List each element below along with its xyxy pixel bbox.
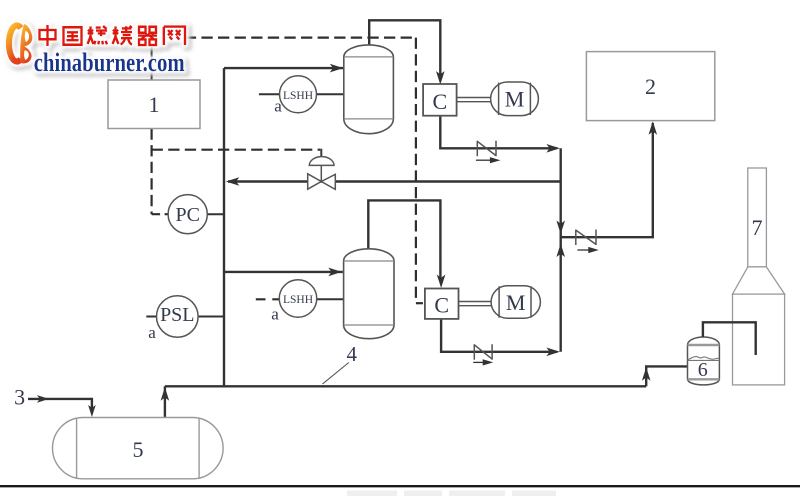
wire: dashed signal from box 1 top up to top run — [151, 38, 153, 80]
wire: step up to flare KO drum 6 with up arrow — [646, 366, 687, 386]
instrument PC circle — [168, 195, 207, 234]
svg-text:C: C — [434, 293, 449, 318]
instrument PSL circle — [157, 296, 199, 338]
check valve CV3 before box 2 — [576, 230, 596, 246]
wire: feed 3 inlet line with arrow — [28, 399, 92, 411]
svg-text:a: a — [274, 97, 282, 116]
wire: dashed signal horizontal to control valve — [152, 149, 321, 151]
svg-text:6: 6 — [698, 359, 708, 381]
wire: vessel 5 vapour riser with up arrow — [164, 386, 166, 417]
wire: signal drop to control valve actuator — [320, 150, 321, 158]
wire: main bottom header line 4 — [165, 385, 646, 387]
wire: C2 discharge to junction with arrow — [441, 319, 557, 352]
wire: dashed signal stub into PC left — [152, 213, 169, 215]
vessel 6: flare knock-out drum — [688, 337, 720, 385]
ghost caption below rule — [347, 491, 556, 497]
motor M1 — [491, 82, 539, 116]
box 1: controller — [108, 80, 200, 129]
svg-text:1: 1 — [149, 92, 160, 117]
svg-text:C: C — [433, 89, 448, 114]
instrument LSHH1 circle — [280, 76, 317, 113]
wire: vertical junction line x=561 — [560, 148, 562, 351]
vessel V2: suction scrubber — [344, 249, 394, 339]
instrument stub: LSHH1 left line — [259, 93, 280, 95]
instrument stub: PSL to header — [198, 316, 224, 318]
box 2: unit 2 — [586, 52, 714, 121]
node: converging arrow down at junction — [556, 221, 565, 235]
wire: feed line into vessel V1 with arrow — [224, 67, 344, 69]
wire: main vertical header x=224 — [223, 68, 225, 386]
svg-text:PSL: PSL — [160, 304, 194, 326]
wire: V1 overhead line to compressor C1 — [369, 20, 440, 78]
svg-text:3: 3 — [14, 385, 25, 410]
wire: V2 overhead line to compressor C2 — [368, 200, 440, 280]
svg-text:5: 5 — [133, 437, 144, 462]
shaft C1-M1 double line — [457, 98, 491, 102]
svg-text:2: 2 — [645, 74, 656, 99]
wire: dashed signal top horizontal run to compressor C2 — [152, 36, 416, 38]
shaft C2-M2 double line — [459, 302, 492, 306]
wire: dashed signal from box 1 bottom down to PC — [151, 129, 153, 215]
wire: dashed stub into LSHH2 left with label a — [256, 298, 279, 300]
svg-text:PC: PC — [175, 204, 199, 226]
svg-text:a: a — [148, 323, 156, 342]
compressor C2 box — [425, 289, 459, 319]
instrument stub: LSHH2 to vessel V2 — [317, 298, 344, 300]
leader line for label 4 — [323, 363, 349, 385]
wire: feed line into vessel V2 with arrow — [224, 271, 343, 273]
wire: junction to box 2 with up arrow — [561, 123, 653, 237]
motor M2 — [491, 286, 540, 319]
control valve: actuator dome and bowtie — [308, 157, 336, 190]
flare stack 7 — [733, 168, 785, 385]
instrument stub: LSHH1 to vessel V1 — [317, 93, 344, 95]
svg-text:LSHH: LSHH — [283, 294, 313, 306]
vessel V1: suction scrubber — [344, 45, 394, 134]
svg-text:M: M — [505, 87, 525, 112]
wire: dashed signal stub into C2 left — [416, 302, 425, 304]
instrument LSHH2 circle — [279, 280, 317, 318]
node: converging arrow up at junction — [556, 244, 565, 258]
svg-text:LSHH: LSHH — [283, 90, 313, 102]
flow arrow under CV2 — [473, 361, 484, 363]
wire: recycle line y=181.5 back to header with left arrow — [228, 180, 561, 182]
check valve CV1 on C1 discharge — [477, 141, 496, 157]
wire: C1 discharge to junction with arrow — [440, 116, 557, 149]
svg-text:chinaburner.com: chinaburner.com — [34, 48, 185, 77]
svg-text:a: a — [271, 305, 279, 324]
instrument stub: PSL left line — [146, 316, 156, 318]
wire: KO drum 6 overhead into flare 7 — [703, 322, 756, 355]
vessel 5: horizontal drum — [53, 418, 224, 479]
check valve CV2 on C2 discharge — [474, 344, 492, 360]
flow arrow under CV3 — [577, 249, 589, 251]
bottom page rule — [0, 485, 800, 487]
svg-text:M: M — [506, 290, 526, 315]
flow arrow under CV1 — [476, 159, 491, 161]
svg-text:7: 7 — [752, 215, 763, 240]
watermark red hanzi 中国燃烧器网 drawn as vector strokes — [40, 25, 186, 46]
compressor C1 box — [423, 84, 457, 116]
instrument stub: PC to header — [207, 213, 224, 215]
wire: dashed signal vertical down at x=416 — [415, 38, 417, 304]
